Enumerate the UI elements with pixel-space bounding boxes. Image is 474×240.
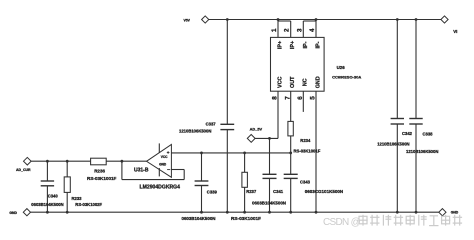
svg-text:AD_5V: AD_5V	[250, 126, 263, 131]
svg-text:RS-03K1001F: RS-03K1001F	[87, 176, 117, 181]
svg-text:IP-: IP-	[316, 41, 322, 48]
svg-text:OUT: OUT	[290, 76, 296, 88]
svg-text:0603CG101K500N: 0603CG101K500N	[305, 189, 343, 194]
svg-text:VCC: VCC	[161, 155, 168, 159]
svg-text:LM2904DGKRG4: LM2904DGKRG4	[140, 185, 181, 191]
svg-text:8: 8	[272, 96, 279, 100]
svg-text:CSDN @: CSDN @	[323, 217, 361, 228]
svg-text:IP+: IP+	[278, 41, 284, 49]
svg-text:R236: R236	[94, 168, 105, 173]
svg-text:GND: GND	[9, 211, 17, 215]
svg-text:C340: C340	[48, 193, 59, 198]
svg-text:V5V: V5V	[184, 19, 191, 23]
svg-text:GND: GND	[159, 163, 167, 167]
svg-text:GND: GND	[451, 211, 459, 215]
svg-text:NC: NC	[303, 78, 309, 86]
svg-text:5: 5	[310, 96, 317, 100]
svg-text:C343: C343	[300, 179, 311, 184]
svg-text:U31-B: U31-B	[134, 167, 149, 173]
svg-text:7: 7	[284, 96, 291, 100]
svg-text:IP+: IP+	[290, 41, 296, 49]
svg-text:R237: R237	[246, 189, 257, 194]
svg-text:C342: C342	[402, 131, 413, 136]
svg-text:IP-: IP-	[303, 41, 309, 48]
svg-text:1210B106K500N: 1210B106K500N	[406, 149, 438, 154]
svg-text:1210B106K500N: 1210B106K500N	[179, 128, 211, 133]
svg-text:U26: U26	[337, 65, 346, 70]
svg-text:6: 6	[297, 96, 304, 100]
svg-text:R233: R233	[72, 196, 83, 201]
svg-text:RS-03K1001F: RS-03K1001F	[294, 149, 321, 154]
svg-text:1: 1	[271, 28, 278, 32]
svg-text:0603B104K500N: 0603B104K500N	[31, 202, 63, 207]
svg-text:C339: C339	[207, 190, 218, 195]
svg-text:VI: VI	[453, 29, 457, 34]
svg-text:RS-03K1002F: RS-03K1002F	[75, 202, 102, 207]
svg-text:C338: C338	[423, 132, 434, 137]
svg-text:R234: R234	[300, 138, 311, 143]
svg-text:0603B104K500N: 0603B104K500N	[252, 200, 286, 205]
svg-text:2: 2	[284, 28, 291, 32]
svg-text:0603B104K500N: 0603B104K500N	[182, 216, 216, 221]
svg-text:C337: C337	[206, 121, 217, 126]
svg-text:GND: GND	[315, 76, 321, 88]
svg-text:AD_CUR: AD_CUR	[16, 168, 31, 172]
svg-text:RS-03K1001F: RS-03K1001F	[231, 216, 261, 221]
svg-text:3: 3	[296, 28, 303, 32]
svg-text:4: 4	[309, 28, 316, 32]
svg-text:1210B106K500N: 1210B106K500N	[377, 141, 409, 146]
svg-text:CC6902SO-30A: CC6902SO-30A	[332, 74, 361, 79]
svg-text:VCC: VCC	[277, 77, 283, 88]
svg-text:C341: C341	[273, 189, 284, 194]
